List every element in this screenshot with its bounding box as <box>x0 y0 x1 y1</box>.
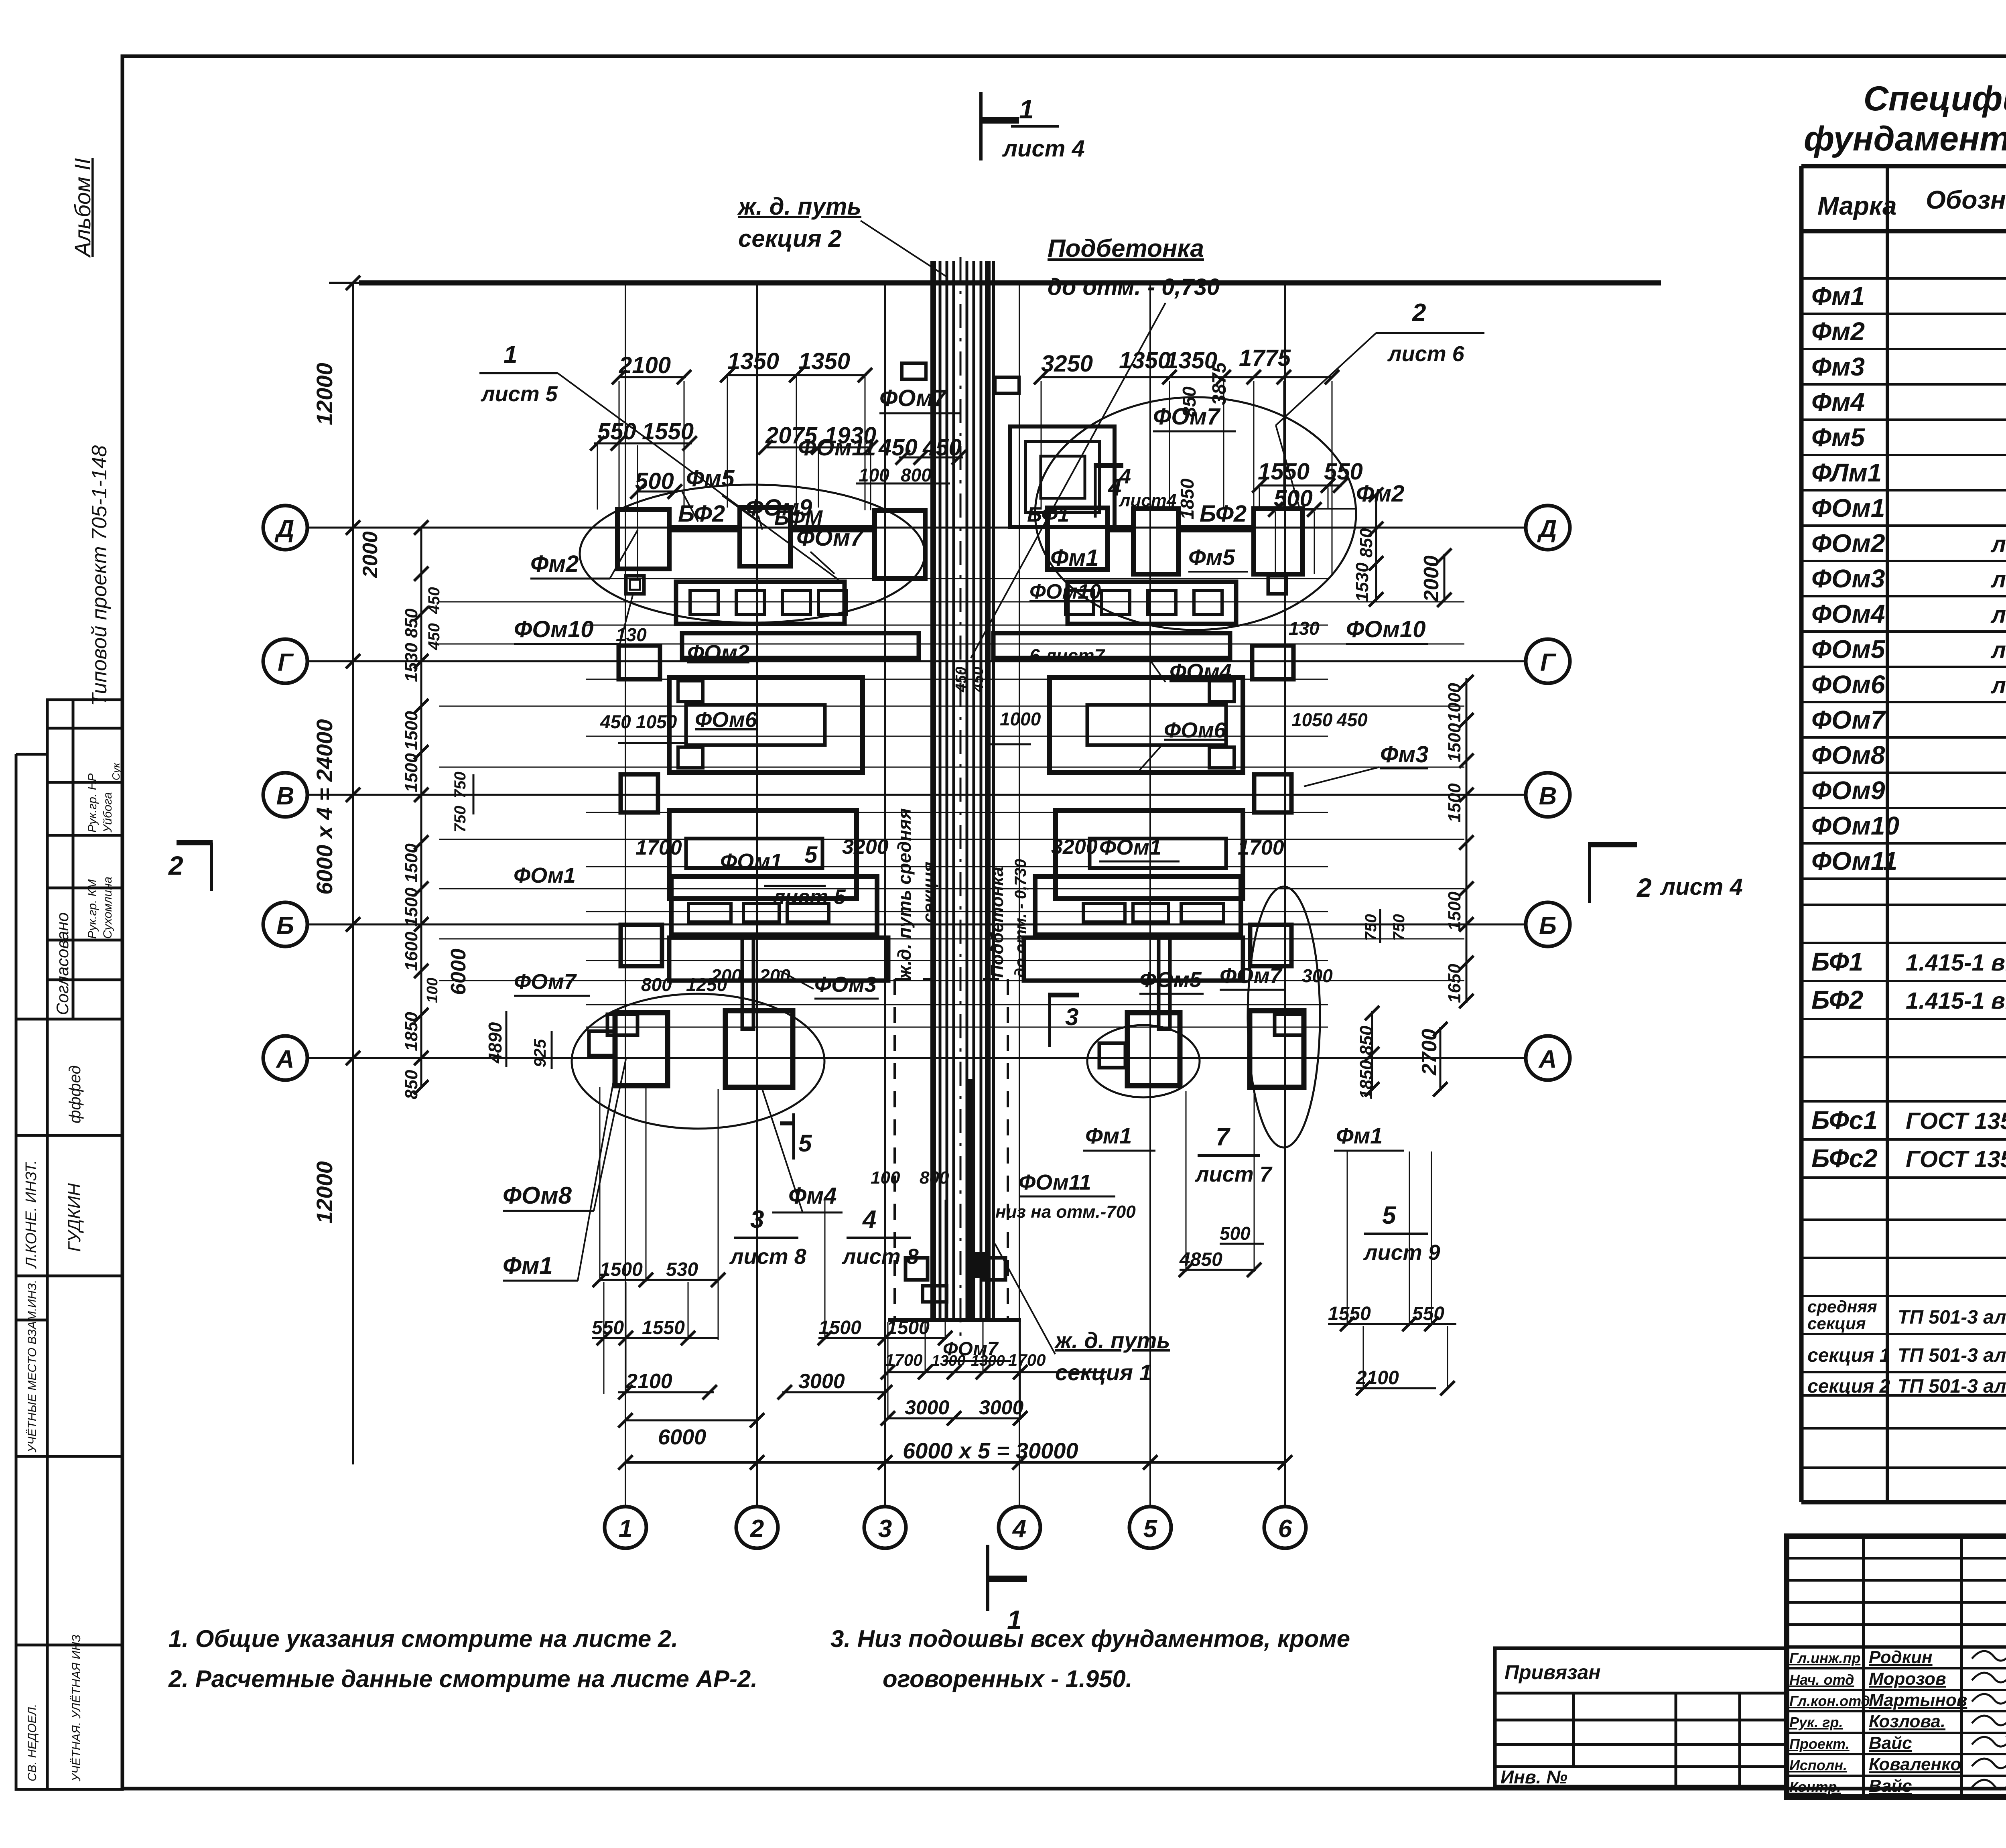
svg-text:550: 550 <box>597 418 636 445</box>
svg-text:секция 2: секция 2 <box>738 225 842 252</box>
foundation Fm4 row A <box>725 1011 793 1087</box>
svg-text:300: 300 <box>1302 965 1333 986</box>
building top outline <box>359 280 1661 286</box>
svg-text:ФОм6: ФОм6 <box>1811 670 1885 699</box>
svg-text:Уйбога: Уйбога <box>101 792 114 833</box>
svg-text:ФОм8: ФОм8 <box>1811 741 1885 770</box>
svg-text:3: 3 <box>750 1206 764 1233</box>
svg-text:1650: 1650 <box>1445 964 1464 1003</box>
svg-text:листы 16,17: листы 16,17 <box>1990 567 2006 593</box>
svg-text:фффед: фффед <box>66 1065 84 1123</box>
svg-text:850: 850 <box>402 1070 421 1099</box>
svg-text:1300: 1300 <box>932 1352 966 1369</box>
svg-text:2100: 2100 <box>625 1370 672 1393</box>
svg-text:2: 2 <box>168 851 183 880</box>
top dimension lines <box>618 376 686 378</box>
svg-text:оговоренных - 1.950.: оговоренных - 1.950. <box>883 1665 1132 1692</box>
spec table rows <box>1807 240 2006 1398</box>
svg-text:Привязан: Привязан <box>1504 1661 1601 1684</box>
svg-text:Л.КОНЕ. ИНЗТ.: Л.КОНЕ. ИНЗТ. <box>23 1160 40 1269</box>
left master dimension line <box>352 283 354 1464</box>
svg-text:1050: 1050 <box>636 711 677 732</box>
svg-text:1.415-1 в.1: 1.415-1 в.1 <box>1906 988 2006 1014</box>
column circles <box>605 1507 646 1548</box>
svg-text:Альбом II: Альбом II <box>70 158 95 258</box>
svg-text:ГОСТ 13579-78: ГОСТ 13579-78 <box>1906 1146 2006 1172</box>
building bottom edge <box>888 1318 1021 1322</box>
svg-text:450: 450 <box>878 435 918 461</box>
svg-text:1500: 1500 <box>402 887 421 927</box>
svg-text:1.415-1 в.1: 1.415-1 в.1 <box>1906 950 2006 976</box>
svg-text:6 лист7: 6 лист7 <box>1029 645 1106 666</box>
small footings at FOm11 bottom <box>906 1258 928 1280</box>
svg-text:850: 850 <box>402 608 421 638</box>
svg-text:Г: Г <box>1540 649 1557 676</box>
svg-text:ФОм4: ФОм4 <box>1811 599 1885 628</box>
svg-text:Фм4: Фм4 <box>788 1183 837 1209</box>
footing row V left <box>621 774 658 812</box>
svg-text:3: 3 <box>878 1515 892 1543</box>
svg-text:ФОм7: ФОм7 <box>1220 964 1283 988</box>
svg-text:5: 5 <box>798 1130 812 1157</box>
svg-text:ФОм11: ФОм11 <box>1811 847 1897 875</box>
svg-text:БФМ: БФМ <box>774 506 823 530</box>
dim extension verticals top <box>619 381 620 510</box>
svg-text:Фм1: Фм1 <box>1085 1123 1132 1148</box>
svg-text:ФОм8: ФОм8 <box>503 1182 572 1209</box>
bottom master dimension line <box>625 1461 1285 1464</box>
structure below V left <box>669 810 857 899</box>
svg-text:500: 500 <box>1220 1223 1251 1244</box>
svg-text:Фм2: Фм2 <box>1356 481 1404 507</box>
svg-text:лист 7: лист 7 <box>1194 1162 1273 1186</box>
railway centerline <box>960 257 962 1344</box>
svg-text:550: 550 <box>1412 1303 1444 1324</box>
svg-text:450: 450 <box>600 711 631 732</box>
title block texts <box>1789 1550 2006 1797</box>
svg-text:750: 750 <box>1362 914 1380 941</box>
svg-text:530: 530 <box>666 1259 698 1280</box>
svg-text:секция: секция <box>919 861 939 923</box>
footing Fm3 left <box>619 646 660 679</box>
svg-text:1850: 1850 <box>1177 478 1198 520</box>
svg-text:Марка: Марка <box>1817 191 1897 220</box>
svg-text:3250: 3250 <box>1041 351 1093 377</box>
left secondary dim verticals <box>420 528 422 1087</box>
svg-text:Рук. гр.: Рук. гр. <box>1789 1714 1843 1730</box>
small FOm7 left <box>607 1014 638 1035</box>
svg-text:1550: 1550 <box>1258 459 1310 485</box>
svg-text:Инв. №: Инв. № <box>1500 1767 1567 1787</box>
dim extension verticals bottom <box>599 1087 601 1282</box>
axis circles right <box>1526 506 1570 550</box>
svg-text:5: 5 <box>804 842 818 868</box>
svg-text:ФОм7: ФОм7 <box>879 385 947 411</box>
svg-text:2: 2 <box>1636 873 1652 902</box>
svg-text:ФОм10: ФОм10 <box>514 616 594 642</box>
svg-text:ФОм3: ФОм3 <box>1811 564 1885 593</box>
svg-text:Фм5: Фм5 <box>1811 423 1865 452</box>
notes bottom left <box>168 1625 1350 1692</box>
svg-text:листы 22,23: листы 22,23 <box>1990 672 2006 699</box>
section marker 1 top <box>979 92 983 160</box>
title block outer <box>1787 1536 2006 1797</box>
svg-text:1300: 1300 <box>971 1352 1005 1369</box>
svg-text:2: 2 <box>750 1515 764 1543</box>
svg-text:6: 6 <box>1278 1515 1292 1543</box>
left stamp boxes <box>16 700 122 1789</box>
svg-text:Гл.инж.пр: Гл.инж.пр <box>1789 1650 1860 1666</box>
svg-text:550: 550 <box>592 1317 624 1338</box>
strip below B left <box>669 938 888 981</box>
svg-text:Морозов: Морозов <box>1869 1669 1946 1689</box>
svg-text:925: 925 <box>530 1039 549 1067</box>
svg-text:УЧЁТНАЯ. УЛЁТНАЯ ИНЗ: УЧЁТНАЯ. УЛЁТНАЯ ИНЗ <box>70 1635 83 1782</box>
svg-text:6000 х 5 = 30000: 6000 х 5 = 30000 <box>903 1438 1078 1463</box>
svg-text:Сухомлина: Сухомлина <box>101 877 114 939</box>
svg-text:ТП 501-3 альбом II, III: ТП 501-3 альбом II, III <box>1898 1376 2006 1397</box>
svg-text:ФОм6: ФОм6 <box>1164 718 1226 742</box>
small footing right of band top <box>995 377 1019 393</box>
svg-text:Сук: Сук <box>110 762 122 780</box>
svg-text:850: 850 <box>1356 528 1376 558</box>
svg-text:Фм3: Фм3 <box>1380 741 1428 768</box>
svg-text:450: 450 <box>425 587 443 614</box>
svg-text:лист 8: лист 8 <box>729 1245 806 1269</box>
svg-text:800: 800 <box>920 1168 949 1188</box>
svg-text:130: 130 <box>616 624 647 645</box>
svg-text:БФс1: БФс1 <box>1811 1106 1878 1135</box>
svg-text:секция 2: секция 2 <box>1807 1376 1890 1397</box>
svg-text:лист 8: лист 8 <box>841 1245 919 1269</box>
svg-text:Обозначение: Обозначение <box>1926 185 2006 214</box>
svg-text:850: 850 <box>1179 386 1200 417</box>
foundation Fm1 left row A <box>615 1013 668 1086</box>
svg-text:низ на отм.-700: низ на отм.-700 <box>995 1202 1136 1222</box>
svg-text:1500: 1500 <box>1445 723 1464 762</box>
svg-text:ФОм11: ФОм11 <box>1019 1170 1091 1194</box>
svg-text:750: 750 <box>1390 914 1408 941</box>
svg-text:1000: 1000 <box>1000 709 1041 729</box>
section marker 4 right of band <box>1094 463 1123 468</box>
svg-text:6000: 6000 <box>658 1425 706 1449</box>
svg-text:листы 14,15: листы 14,15 <box>1990 531 2006 557</box>
svg-text:4: 4 <box>1012 1515 1026 1543</box>
svg-text:ФОм11: ФОм11 <box>798 435 876 461</box>
svg-text:ФОм6: ФОм6 <box>695 708 757 732</box>
svg-text:Фм1: Фм1 <box>1050 545 1098 571</box>
svg-text:Д: Д <box>274 515 294 543</box>
svg-text:100: 100 <box>871 1168 900 1188</box>
svg-text:Исполн.: Исполн. <box>1789 1757 1847 1773</box>
signatures <box>1972 1646 2006 1789</box>
svg-text:450: 450 <box>1336 709 1368 730</box>
svg-text:ТП 501-3 альбом II, III: ТП 501-3 альбом II, III <box>1898 1345 2006 1366</box>
svg-text:3000: 3000 <box>979 1396 1023 1419</box>
rail dark segment <box>968 1079 974 1320</box>
svg-text:УЧЁТНЫЕ МЕСТО ВЗАМ.ИНЗ.: УЧЁТНЫЕ МЕСТО ВЗАМ.ИНЗ. <box>26 1280 39 1453</box>
svg-text:БФ2: БФ2 <box>1200 501 1247 527</box>
svg-text:6000: 6000 <box>447 948 470 995</box>
svg-text:1550: 1550 <box>642 418 694 445</box>
svg-text:750: 750 <box>451 806 469 833</box>
svg-text:2100: 2100 <box>619 352 671 378</box>
svg-text:лист4: лист4 <box>1119 491 1176 510</box>
footing row B left <box>621 925 662 966</box>
svg-text:ФОм5: ФОм5 <box>1139 968 1202 992</box>
svg-text:2: 2 <box>1412 299 1426 327</box>
svg-text:А: А <box>1538 1046 1557 1073</box>
svg-text:ФЛм1: ФЛм1 <box>1811 458 1882 487</box>
right side mirrored shapes <box>1048 508 1108 569</box>
svg-text:Фм4: Фм4 <box>1811 388 1865 416</box>
svg-text:5: 5 <box>1382 1202 1397 1229</box>
svg-text:3000: 3000 <box>905 1396 949 1419</box>
svg-text:ФОм5: ФОм5 <box>1811 635 1886 664</box>
svg-text:секция: секция <box>1807 1314 1866 1333</box>
svg-text:Нач. отд: Нач. отд <box>1789 1671 1854 1688</box>
svg-text:ФОм10: ФОм10 <box>1029 580 1101 603</box>
svg-text:3: 3 <box>1065 1003 1078 1030</box>
svg-text:800: 800 <box>641 974 672 995</box>
svg-text:1700: 1700 <box>1008 1350 1046 1369</box>
strip FOm1 left <box>671 877 877 935</box>
svg-text:1550: 1550 <box>642 1317 685 1338</box>
svg-text:ФОм1: ФОм1 <box>720 849 782 873</box>
svg-text:Типовой проект 705-1-148: Типовой проект 705-1-148 <box>88 445 111 706</box>
svg-text:1500: 1500 <box>1445 783 1464 822</box>
svg-text:Рук.гр. КМ: Рук.гр. КМ <box>86 879 99 939</box>
svg-text:800: 800 <box>901 465 932 485</box>
callout ellipse right tall <box>1248 887 1320 1147</box>
svg-text:Вайс: Вайс <box>1869 1776 1912 1796</box>
svg-text:В: В <box>1539 782 1557 810</box>
svg-text:1. Общие указания смотрите на: 1. Общие указания смотрите на листе 2. <box>169 1625 678 1652</box>
section marker 3 right of band <box>1048 993 1079 997</box>
svg-text:4850: 4850 <box>1179 1249 1222 1270</box>
svg-text:Подбетонка: Подбетонка <box>1048 235 1204 262</box>
svg-text:ФОм10: ФОм10 <box>1346 616 1426 642</box>
svg-text:200: 200 <box>759 965 790 986</box>
svg-text:БФ1: БФ1 <box>1811 947 1863 976</box>
svg-text:ФОм7: ФОм7 <box>514 970 577 994</box>
axis circles left <box>263 506 307 550</box>
svg-text:Фм1: Фм1 <box>1336 1123 1383 1148</box>
svg-text:1850: 1850 <box>1356 1060 1376 1099</box>
svg-text:листы 18,19: листы 18,19 <box>1990 602 2006 628</box>
svg-text:2000: 2000 <box>1420 555 1443 602</box>
svg-text:БФ2: БФ2 <box>1811 985 1863 1014</box>
svg-text:ж. д. путь: ж. д. путь <box>737 193 861 220</box>
svg-text:1850: 1850 <box>402 1012 421 1051</box>
svg-text:Б: Б <box>276 912 294 940</box>
svg-text:Родкин: Родкин <box>1869 1647 1933 1667</box>
svg-text:12000: 12000 <box>312 363 337 425</box>
svg-text:СВ. НЕДОЕЛ.: СВ. НЕДОЕЛ. <box>26 1704 39 1781</box>
svg-text:Спецификация к схеме распол: Спецификация к схеме расположения <box>1864 79 2006 118</box>
svg-text:1550: 1550 <box>1328 1303 1371 1324</box>
svg-text:1600: 1600 <box>402 932 421 971</box>
svg-text:ФОм7: ФОм7 <box>1811 705 1886 734</box>
svg-text:ФОм4: ФОм4 <box>1169 660 1232 684</box>
svg-text:450: 450 <box>425 623 443 650</box>
beam BFM left <box>790 525 875 532</box>
podbetonka dashed outline <box>893 979 896 1320</box>
svg-text:БФ1: БФ1 <box>1027 503 1069 526</box>
svg-text:200: 200 <box>711 965 742 986</box>
svg-text:лист 4: лист 4 <box>1002 136 1085 162</box>
svg-text:Фм5: Фм5 <box>686 465 735 491</box>
svg-text:4890: 4890 <box>485 1022 506 1064</box>
svg-text:секция 1: секция 1 <box>1055 1360 1152 1385</box>
svg-text:1530: 1530 <box>402 643 421 682</box>
foundation FOm8 left row A <box>589 1031 615 1056</box>
svg-text:листы 20,21: листы 20,21 <box>1990 637 2006 663</box>
callout ellipse row A right small <box>1087 1025 1200 1097</box>
svg-text:лист 9: лист 9 <box>1363 1241 1440 1265</box>
svg-text:850: 850 <box>1356 1026 1376 1055</box>
svg-text:лист 4: лист 4 <box>1660 874 1743 900</box>
svg-text:до отм. - 0,730: до отм. - 0,730 <box>1048 274 1220 300</box>
svg-text:ФОм9: ФОм9 <box>1811 776 1885 805</box>
svg-text:1500: 1500 <box>600 1259 643 1280</box>
svg-text:лист 6: лист 6 <box>1387 342 1465 366</box>
svg-text:3875: 3875 <box>1209 362 1230 405</box>
svg-text:Проект.: Проект. <box>1789 1736 1850 1752</box>
svg-text:фундаментов и фундаментных: фундаментов и фундаментных балок (начало… <box>1804 120 2006 158</box>
svg-text:Фм2: Фм2 <box>530 551 579 577</box>
svg-text:ФОм1: ФОм1 <box>514 863 576 887</box>
svg-text:500: 500 <box>1274 485 1313 512</box>
callout ellipse row A left <box>572 994 824 1129</box>
svg-text:4: 4 <box>862 1206 876 1233</box>
foundation Fm2 left row D <box>617 510 669 569</box>
nested squares BF1 right of band <box>1010 426 1115 527</box>
svg-text:1500: 1500 <box>1445 892 1464 931</box>
svg-text:Вайс: Вайс <box>1869 1733 1912 1753</box>
structure FOm6 left <box>669 678 863 772</box>
svg-text:1050: 1050 <box>1291 709 1333 730</box>
svg-text:лист 5: лист 5 <box>480 382 558 406</box>
svg-text:2700: 2700 <box>1418 1029 1441 1076</box>
railway band section 2 <box>930 261 936 1320</box>
svg-text:3. Низ подошвы всех фундаменто: 3. Низ подошвы всех фундаментов, кроме <box>830 1625 1350 1652</box>
axis lines horizontal <box>307 527 1526 529</box>
column grid lines <box>625 285 626 1507</box>
spec table grid <box>1801 166 2006 1502</box>
svg-text:ж. д. путь: ж. д. путь <box>1054 1328 1170 1353</box>
svg-text:ФОм2: ФОм2 <box>1811 529 1885 558</box>
svg-text:4: 4 <box>1119 465 1131 488</box>
svg-text:ГУДКИН: ГУДКИН <box>65 1183 84 1252</box>
svg-text:1700: 1700 <box>885 1350 922 1369</box>
svg-text:6000 х 4 = 24000: 6000 х 4 = 24000 <box>312 719 337 895</box>
svg-text:В: В <box>276 782 294 810</box>
svg-text:ФОм3: ФОм3 <box>814 973 877 997</box>
foundation Fm5 left row D <box>740 508 790 566</box>
svg-text:Рук.гр. НР: Рук.гр. НР <box>86 774 99 833</box>
svg-text:БФс2: БФс2 <box>1811 1144 1878 1173</box>
svg-text:ж.д. путь средняя: ж.д. путь средняя <box>894 808 915 980</box>
construction lines <box>586 578 1328 579</box>
svg-text:1350: 1350 <box>798 348 850 374</box>
svg-text:Коваленко: Коваленко <box>1869 1755 1961 1774</box>
svg-text:ФОм10: ФОм10 <box>1811 811 1899 840</box>
svg-text:2100: 2100 <box>1356 1367 1399 1389</box>
svg-text:500: 500 <box>635 468 674 494</box>
section marker 5 mid <box>792 1113 795 1160</box>
svg-text:ТП 501-3 альбом II, III: ТП 501-3 альбом II, III <box>1898 1307 2006 1328</box>
column FOm3 <box>742 935 753 1029</box>
svg-text:Гл.кон.отд: Гл.кон.отд <box>1789 1693 1870 1709</box>
svg-text:100: 100 <box>424 978 441 1003</box>
svg-text:1000: 1000 <box>1445 683 1464 722</box>
small footing FOm10 left <box>626 576 644 594</box>
callout ellipse row D left <box>580 485 925 623</box>
svg-text:Козлова.: Козлова. <box>1869 1712 1945 1731</box>
svg-text:1: 1 <box>504 341 517 369</box>
svg-text:Фм5: Фм5 <box>1188 544 1235 570</box>
svg-text:БФ2: БФ2 <box>678 501 725 527</box>
foundation row D near band left <box>875 510 925 579</box>
svg-text:1350: 1350 <box>1119 347 1171 374</box>
section marker 1 bottom <box>986 1545 989 1611</box>
right dim verticals <box>1375 493 1377 602</box>
svg-text:ФОм1: ФОм1 <box>1811 493 1885 522</box>
section marker 2 left <box>177 840 213 845</box>
svg-text:Фм1: Фм1 <box>1811 282 1865 311</box>
svg-text:750: 750 <box>451 772 469 798</box>
svg-text:1350: 1350 <box>727 348 779 374</box>
svg-text:Согласовано: Согласовано <box>53 912 72 1015</box>
svg-text:1500: 1500 <box>402 843 421 883</box>
svg-text:Фм3: Фм3 <box>1811 352 1865 381</box>
svg-text:1775: 1775 <box>1239 345 1291 371</box>
svg-text:450: 450 <box>922 435 962 461</box>
svg-text:Фм1: Фм1 <box>503 1252 553 1279</box>
svg-text:2000: 2000 <box>359 531 382 578</box>
privyazan table <box>1495 1648 1787 1787</box>
svg-text:ГОСТ 13579-78: ГОСТ 13579-78 <box>1906 1108 2006 1134</box>
svg-text:Г: Г <box>278 649 294 676</box>
svg-text:Мартынов: Мартынов <box>1869 1690 1967 1710</box>
svg-text:130: 130 <box>1289 618 1320 639</box>
svg-text:1530: 1530 <box>1352 563 1372 602</box>
svg-text:1500: 1500 <box>818 1317 861 1338</box>
svg-text:секция 1: секция 1 <box>1807 1345 1890 1366</box>
svg-text:3000: 3000 <box>798 1370 845 1393</box>
beam BF2 left <box>669 525 740 532</box>
svg-text:100: 100 <box>859 465 889 485</box>
svg-text:1500: 1500 <box>887 1317 930 1338</box>
svg-text:1: 1 <box>619 1515 632 1543</box>
svg-text:12000: 12000 <box>312 1161 337 1224</box>
svg-text:1500: 1500 <box>402 711 421 750</box>
strip FOm2 left <box>676 582 845 624</box>
svg-text:7: 7 <box>1216 1123 1230 1151</box>
svg-text:5: 5 <box>1143 1515 1158 1543</box>
svg-text:Фм2: Фм2 <box>1811 317 1865 346</box>
misc leaders <box>722 496 758 522</box>
spec table header <box>1817 170 2006 220</box>
svg-text:1500: 1500 <box>402 753 421 792</box>
svg-text:1: 1 <box>1019 94 1034 124</box>
svg-text:Д: Д <box>1537 515 1557 543</box>
svg-text:средняя: средняя <box>1807 1297 1877 1316</box>
svg-text:2. Расчетные данные смотрите н: 2. Расчетные данные смотрите на листе АР… <box>168 1665 757 1692</box>
callout ellipse row D right <box>1035 397 1356 630</box>
svg-text:Б: Б <box>1539 912 1557 940</box>
